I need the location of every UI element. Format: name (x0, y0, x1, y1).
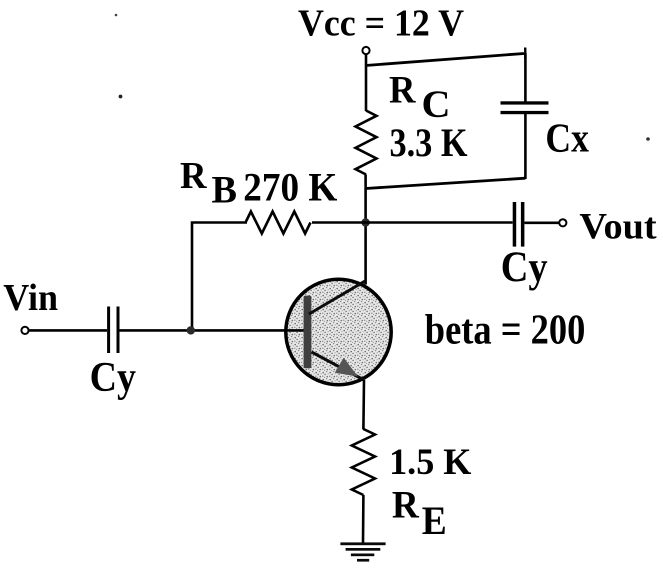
svg-text:B: B (212, 169, 238, 212)
ground bar 1 (340, 542, 385, 545)
wire Cx loop right lower (524, 114, 527, 179)
wire output cap to Vout terminal (524, 222, 558, 225)
svg-text:Vcc = 12 V: Vcc = 12 V (298, 3, 464, 45)
node collector junction (361, 218, 369, 226)
tick at loop top-right corner (524, 48, 527, 60)
transistor base bar (304, 296, 312, 369)
capacitor Cx top plate (501, 101, 549, 104)
ground bar 3 (351, 554, 374, 557)
svg-text:Vin: Vin (3, 277, 58, 319)
wire node to output cap (366, 221, 513, 224)
ground bar 4 (357, 559, 369, 562)
capacitor Cy output left plate (513, 202, 517, 247)
stray speck right (646, 137, 650, 141)
capacitor Cy output right plate (521, 202, 525, 247)
svg-text:3.3 K: 3.3 K (390, 120, 468, 165)
wire emitter down to RE (362, 380, 365, 430)
svg-text:Cy: Cy (501, 243, 548, 291)
svg-text:R: R (389, 68, 416, 111)
capacitor Cy input right plate (117, 307, 120, 354)
wire input cap to base (120, 329, 305, 332)
wire Vcc to RC top (365, 55, 368, 112)
terminal Vout (559, 219, 566, 226)
wire bottom of Cx loop (366, 178, 526, 188)
wire RC bottom to collector node and down to transistor (364, 175, 367, 285)
transistor emitter slant (312, 352, 365, 380)
transistor collector slant (309, 281, 365, 314)
stray speck mid-left (119, 95, 123, 99)
resistor RC 3.3K zigzag (356, 111, 377, 175)
terminal Vcc (362, 47, 369, 54)
wire RE to ground (362, 495, 365, 544)
capacitor Cy input left plate (107, 307, 110, 354)
node base junction (187, 326, 195, 334)
transistor Q1 body (286, 279, 391, 384)
svg-text:R: R (180, 155, 208, 197)
wire Cx loop right upper (524, 53, 527, 102)
wire Vin to input cap (29, 329, 107, 332)
wire top of Cx loop (366, 54, 525, 66)
stray speck top-left (115, 14, 118, 17)
ground bar 2 (346, 548, 381, 551)
wire RB left corner (down to base node) (192, 223, 247, 331)
resistor RE 1.5K zigzag (352, 429, 375, 495)
svg-text:Vout: Vout (579, 206, 657, 247)
svg-text:1.5 K: 1.5 K (389, 442, 472, 483)
svg-text:beta = 200: beta = 200 (425, 308, 586, 354)
wire RB to node (312, 221, 366, 224)
resistor RB 270K zigzag (246, 212, 311, 234)
svg-text:270 K: 270 K (243, 165, 337, 210)
capacitor Cx bottom plate (501, 111, 549, 114)
svg-text:Cx: Cx (545, 115, 589, 161)
svg-text:E: E (422, 498, 447, 543)
svg-text:R: R (392, 484, 420, 527)
svg-text:Cy: Cy (90, 354, 136, 401)
terminal Vin (21, 327, 28, 334)
transistor emitter arrowhead (335, 358, 358, 377)
